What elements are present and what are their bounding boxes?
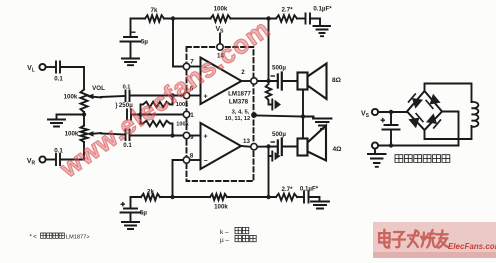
svg-text:LM1877>: LM1877> xyxy=(66,235,89,241)
wire ground pins bus xyxy=(256,116,303,117)
ground supply xyxy=(368,149,386,167)
svg-text:VL: VL xyxy=(27,65,35,74)
junction node bottom row left xyxy=(170,195,174,199)
svg-text:500µ: 500µ xyxy=(272,65,286,72)
wire pin8 into amp xyxy=(190,159,201,161)
junction node top output column xyxy=(266,16,270,20)
svg-text:0.1µF*: 0.1µF* xyxy=(300,186,319,193)
junction node pots center xyxy=(82,112,86,116)
capacitor 500u ch1 xyxy=(278,73,282,90)
junction node bias resistors xyxy=(138,112,142,116)
wire bottom row middle xyxy=(160,196,210,198)
wire pin7 into amp xyxy=(190,66,201,68)
svg-text:+: + xyxy=(203,94,207,101)
pin 7 circle xyxy=(183,63,189,69)
junction node ground bus xyxy=(251,112,257,118)
supply return terminal xyxy=(372,142,378,148)
wire bias row xyxy=(132,114,184,116)
op-amp U1A triangle xyxy=(201,58,242,105)
wire cap to speaker ch1 xyxy=(282,80,298,82)
wire output column ch2 xyxy=(268,147,270,198)
resistor 100k bias lower xyxy=(141,115,173,136)
svg-text:100k: 100k xyxy=(214,6,228,13)
plus mark supply cap xyxy=(381,118,386,123)
capacitor 0.1 VR input xyxy=(56,154,60,165)
wire cap to pin9 xyxy=(130,135,183,137)
svg-text:VS: VS xyxy=(215,26,224,35)
wire bottom row right xyxy=(227,196,276,198)
speaker LS2 box xyxy=(298,139,308,156)
wire pin13 to output node xyxy=(257,146,277,148)
arrow head wiper1 xyxy=(87,94,94,99)
svg-text:5µ: 5µ xyxy=(140,210,147,217)
diode D3 bottom-left xyxy=(408,113,423,128)
junction node supply cap top xyxy=(389,110,393,114)
pin 2 circle xyxy=(251,78,257,84)
logo glyph you xyxy=(436,230,448,248)
input VL terminal xyxy=(39,64,45,70)
wire VR cap to pot column xyxy=(61,159,85,161)
pot2 wiper arrow xyxy=(91,133,102,134)
wire cap to pin6 xyxy=(130,95,183,97)
resistor 7k top xyxy=(145,15,164,22)
op-amp U1B triangle xyxy=(201,123,242,169)
pin 13 circle xyxy=(251,144,257,150)
capacitor 5u bottom xyxy=(121,209,141,222)
wire to 0.1uF* bottom xyxy=(297,196,303,198)
wire bottom rail xyxy=(378,145,458,147)
wire VL to cap xyxy=(46,66,55,68)
speaker LS1 cone xyxy=(308,64,327,100)
resistor 100k top feedback xyxy=(211,15,231,22)
ground pots xyxy=(48,120,65,127)
wire bottom row left xyxy=(131,197,142,207)
logo glyph zi xyxy=(392,232,405,247)
wire wiper1 to cap xyxy=(101,96,125,97)
speaker LS1 box xyxy=(298,73,308,90)
capacitor 500u ch2 xyxy=(278,139,282,156)
svg-text:5µ: 5µ xyxy=(141,39,148,46)
ground mid speakers xyxy=(313,119,332,129)
junction node output ch2 xyxy=(266,144,270,148)
wire wiper2 to cap xyxy=(101,134,125,135)
potentiometer 100k left-bottom body xyxy=(81,126,88,143)
wire pin6 into amp xyxy=(190,95,201,97)
svg-text:10, 11, 12: 10, 11, 12 xyxy=(225,116,250,122)
wire U1A output to pin2 xyxy=(242,80,251,82)
capacitor 0.1uF* top xyxy=(306,14,311,24)
diode D2 top-right xyxy=(426,94,441,109)
wire bridge top to coil xyxy=(425,84,472,103)
resistor snubber ch1 xyxy=(266,84,272,105)
wire to mid ground xyxy=(303,117,314,119)
wire top feedback row xyxy=(131,19,146,37)
svg-text:13: 13 xyxy=(243,138,250,145)
wire cap branch xyxy=(390,112,392,125)
small ground sideways ch2 stub xyxy=(269,152,273,161)
resistor 100k bias upper xyxy=(141,96,173,115)
supply input Vs terminal xyxy=(372,109,378,115)
capacitor 0.1 VL input xyxy=(56,62,60,73)
logo elecfans bottom right xyxy=(373,222,496,258)
svg-text:k –: k – xyxy=(220,229,229,236)
wire speaker returns column xyxy=(302,90,304,139)
wire coil bottom to bridge bottom xyxy=(425,126,472,139)
svg-text:100k: 100k xyxy=(214,204,228,211)
svg-text:VOL: VOL xyxy=(92,85,105,92)
inductor secondary coil xyxy=(472,102,479,127)
pot1 wiper arrow xyxy=(91,97,102,98)
wire cap to pot column xyxy=(61,67,85,90)
wire bridge right to return xyxy=(442,112,459,146)
plus mark 500u ch2 xyxy=(271,141,276,142)
svg-text:LM378: LM378 xyxy=(229,99,249,106)
svg-text:8Ω: 8Ω xyxy=(332,77,342,84)
wire pin2 to output node xyxy=(257,80,277,82)
svg-text:500µ: 500µ xyxy=(272,131,286,138)
junction node supply cap bottom xyxy=(389,143,393,147)
capacitor 250u bias xyxy=(127,110,131,120)
svg-text:* <: * < xyxy=(30,234,38,241)
logo glyph fa xyxy=(408,230,419,247)
capacitor 0.1 ch2 series xyxy=(126,130,130,141)
svg-text:µ –: µ – xyxy=(220,237,229,244)
junction node pin6 row xyxy=(170,93,174,97)
IC dashed box xyxy=(187,47,254,181)
svg-text:2.7*: 2.7* xyxy=(281,186,293,193)
pin 8 circle xyxy=(183,157,189,163)
wire top row right xyxy=(231,18,277,20)
diode D1 top-left xyxy=(408,93,423,108)
resistor 100k bottom feedback xyxy=(210,194,227,200)
bridge diamond xyxy=(407,91,442,130)
plus mark 5u top xyxy=(131,32,136,33)
svg-text:8: 8 xyxy=(190,153,194,160)
junction node top feedback xyxy=(171,16,175,20)
wire output column ch1 xyxy=(268,19,270,82)
small ground triangle ch2 xyxy=(275,152,281,160)
ground bottom right xyxy=(311,202,329,209)
wire Vs to pin14 xyxy=(219,34,221,44)
small ground sideways ch1 xyxy=(271,100,273,110)
wire pots ground branch xyxy=(57,115,85,119)
svg-text:0.1: 0.1 xyxy=(54,76,63,83)
plus mark 5u bottom xyxy=(121,202,126,207)
plus mark 500u ch1 xyxy=(271,75,276,76)
resistor 2.7* top xyxy=(276,15,297,22)
ground top right xyxy=(314,26,331,36)
speaker LS2 cone xyxy=(308,126,327,161)
svg-text:VR: VR xyxy=(27,158,36,167)
svg-text:100k: 100k xyxy=(176,122,189,128)
wire pin8 down to bottom row xyxy=(173,160,184,197)
junction node speaker return xyxy=(301,114,305,118)
logo glyph shao xyxy=(421,230,435,247)
svg-text:1: 1 xyxy=(190,112,194,119)
caption supply circuit xyxy=(395,155,450,163)
resistor 2k bottom xyxy=(141,194,160,201)
wire pot1 to ground junction xyxy=(83,112,85,126)
junction node pin9 row xyxy=(170,133,174,137)
wire pin9 into amp xyxy=(190,135,201,137)
capacitor 0.1 ch1 series xyxy=(126,91,130,102)
wire pot2 to VR row xyxy=(83,142,85,160)
svg-text:LM1877: LM1877 xyxy=(228,91,251,98)
svg-text:3, 4, 5,: 3, 4, 5, xyxy=(232,109,250,115)
potentiometer 100k left-top body xyxy=(81,90,88,113)
wire U1B output to pin13 xyxy=(241,145,251,148)
small ground triangle ch1 xyxy=(275,100,281,109)
input VR terminal xyxy=(39,156,45,162)
capacitor supply filter xyxy=(383,125,400,130)
svg-text:2: 2 xyxy=(241,69,245,76)
wire top row middle xyxy=(164,18,211,20)
svg-text:100k: 100k xyxy=(65,131,79,138)
wire feedback node down to pin7 xyxy=(173,19,183,67)
wire cap to ground top right xyxy=(310,19,320,26)
wire cap to speaker ch2 xyxy=(282,146,298,148)
wire VR to cap xyxy=(46,159,55,161)
svg-text:2k: 2k xyxy=(147,189,154,196)
ground under 5u bottom xyxy=(122,222,139,229)
svg-text:100k: 100k xyxy=(64,94,78,101)
wire cap to bottom rail xyxy=(390,130,392,146)
watermark www.elecfans.com xyxy=(55,0,348,182)
logo glyph dian xyxy=(379,230,389,248)
svg-text:−: − xyxy=(203,158,207,165)
svg-text:9: 9 xyxy=(190,134,194,141)
junction node bottom row right xyxy=(266,195,270,199)
wire Vs to bridge xyxy=(378,111,407,113)
svg-text:VS: VS xyxy=(361,111,370,120)
capacitor 5u top left xyxy=(121,37,141,58)
capacitor 0.1uF* bottom xyxy=(304,192,309,203)
pin 6 circle xyxy=(183,92,189,98)
pin 14 circle xyxy=(217,44,223,50)
arrow head wiper2 xyxy=(87,131,94,136)
junction node output ch1 xyxy=(266,79,270,83)
pin 1 circle xyxy=(183,111,189,117)
ground under 5u top left xyxy=(122,59,139,66)
wire to 0.1uF* top xyxy=(297,18,305,20)
svg-text:4Ω: 4Ω xyxy=(333,146,343,153)
diode D4 bottom-right xyxy=(426,113,441,128)
svg-text:0.1: 0.1 xyxy=(123,85,131,91)
svg-text:7k: 7k xyxy=(151,7,158,14)
wire cap to ground bottom right xyxy=(309,197,320,201)
pin 9 circle xyxy=(183,132,189,138)
resistor 2.7* bottom xyxy=(276,194,297,201)
svg-text:+: + xyxy=(203,134,207,141)
